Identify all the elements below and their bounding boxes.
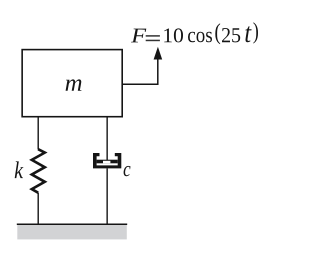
spring upper rod: [37, 117, 39, 150]
damper piston notch: [103, 161, 110, 164]
damper label c: [124, 166, 131, 176]
value 10: [164, 28, 183, 42]
damper lower rod: [106, 168, 108, 224]
ground top line: [17, 223, 127, 225]
force arrowhead: [154, 47, 163, 60]
spring lower rod: [37, 193, 39, 224]
variable t: [245, 26, 251, 42]
cos function: [188, 32, 212, 43]
equals sign: [146, 35, 160, 37]
mass m body: [22, 50, 122, 117]
spring k zigzag: [32, 149, 45, 193]
force lead wire: [122, 59, 158, 85]
force label F: [131, 29, 146, 43]
open paren: [215, 23, 220, 44]
ground plate: [17, 225, 127, 240]
damper upper rod: [106, 117, 108, 161]
spring label k: [15, 161, 24, 178]
close paren: [253, 22, 258, 43]
damper piston plate: [97, 160, 118, 164]
damper cylinder: [93, 153, 121, 168]
value 25: [222, 28, 240, 42]
mass label m: [66, 79, 82, 90]
